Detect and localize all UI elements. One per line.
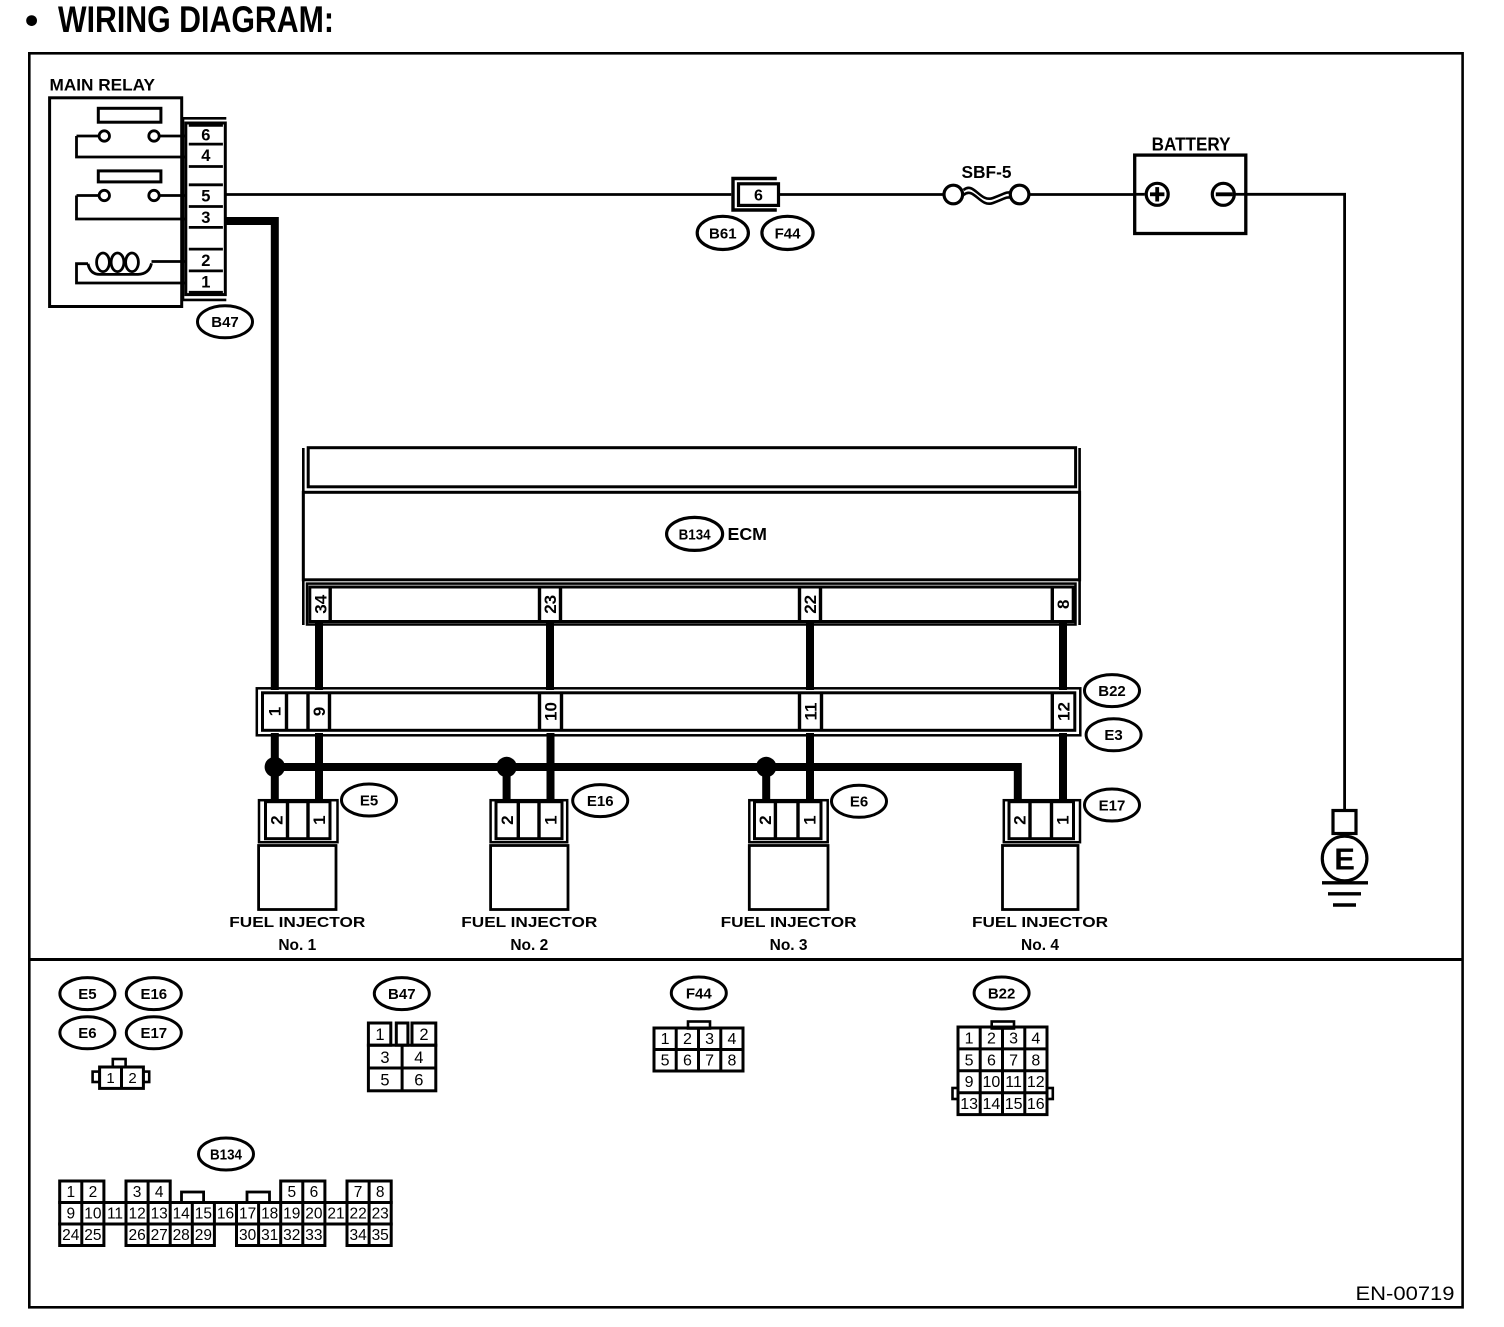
relay switch 2 (pins 5-3)	[77, 190, 187, 219]
svg-text:4: 4	[1031, 1030, 1040, 1047]
label B22	[974, 977, 1029, 1009]
svg-text:5: 5	[965, 1052, 974, 1069]
svg-text:2: 2	[683, 1031, 692, 1048]
svg-text:15: 15	[1005, 1096, 1023, 1113]
svg-text:E16: E16	[140, 986, 167, 1003]
svg-text:4: 4	[201, 147, 211, 165]
svg-text:5: 5	[201, 188, 210, 206]
label B22	[1085, 675, 1140, 707]
svg-text:8: 8	[1031, 1052, 1040, 1069]
svg-text:E: E	[1334, 842, 1355, 877]
label E16	[573, 785, 628, 817]
svg-text:10: 10	[983, 1074, 1001, 1091]
junction node injector 3	[756, 757, 776, 777]
svg-text:1: 1	[375, 1026, 384, 1044]
svg-text:2: 2	[987, 1030, 996, 1047]
svg-text:17: 17	[239, 1206, 256, 1223]
svg-text:8: 8	[376, 1184, 385, 1201]
ECM housing	[303, 448, 1079, 625]
connector B47 strip outer bracket	[183, 118, 226, 300]
svg-text:B22: B22	[1098, 683, 1126, 700]
connector B61/F44 pin 6	[733, 179, 779, 211]
svg-text:EN-00719: EN-00719	[1356, 1284, 1455, 1305]
svg-text:9: 9	[965, 1074, 974, 1091]
svg-text:20: 20	[305, 1206, 323, 1223]
wire: connector to fuse SBF-5	[779, 193, 943, 196]
svg-text:E16: E16	[587, 793, 614, 810]
svg-text:E3: E3	[1104, 727, 1122, 744]
svg-text:3: 3	[201, 209, 210, 227]
svg-text:6: 6	[683, 1053, 692, 1070]
svg-text:11: 11	[107, 1206, 123, 1223]
svg-text:B22: B22	[988, 985, 1016, 1002]
svg-text:2: 2	[268, 815, 287, 824]
wire: battery to ground E	[1246, 194, 1345, 810]
wire: E3 pin 9 to injector 1 pin 1 (thick)	[315, 733, 323, 803]
svg-text:4: 4	[155, 1184, 164, 1201]
relay box	[50, 98, 182, 307]
injector 4 connector (pins 2,1)	[1004, 800, 1080, 842]
svg-text:1: 1	[965, 1030, 974, 1047]
relay contact bar 2	[98, 171, 161, 182]
svg-text:B47: B47	[211, 314, 239, 331]
wire: ECM pin 8 down (thick)	[1059, 623, 1067, 690]
svg-text:27: 27	[151, 1227, 168, 1244]
svg-text:1: 1	[542, 815, 561, 824]
label B47	[374, 978, 429, 1010]
svg-text:7: 7	[705, 1053, 714, 1070]
label E5	[60, 978, 115, 1010]
svg-text:28: 28	[173, 1227, 190, 1244]
svg-text:14: 14	[173, 1206, 191, 1223]
svg-text:6: 6	[201, 127, 210, 145]
ground E	[1322, 811, 1368, 906]
svg-text:12: 12	[1055, 702, 1074, 721]
svg-text:FUEL INJECTOR: FUEL INJECTOR	[229, 914, 365, 931]
svg-text:2: 2	[419, 1026, 428, 1044]
svg-text:12: 12	[1027, 1074, 1045, 1091]
injector 1 connector (pins 2,1)	[259, 800, 338, 842]
battery	[1135, 135, 1246, 234]
svg-text:18: 18	[261, 1206, 278, 1223]
wire: ECM pin 23 down (thick)	[546, 623, 554, 690]
svg-text:8: 8	[727, 1053, 736, 1070]
svg-text:8: 8	[1054, 600, 1073, 609]
wire: injector supply bus (thick)	[275, 767, 1022, 803]
injector 1 body FUEL INJECTOR No. 1	[229, 846, 365, 955]
svg-text:24: 24	[62, 1227, 80, 1244]
svg-text:B134: B134	[679, 526, 712, 543]
svg-text:25: 25	[84, 1227, 101, 1244]
connector strip B22/E3 pins 1 9 10 11 12	[257, 688, 1081, 735]
svg-text:3: 3	[705, 1031, 714, 1048]
svg-text:10: 10	[542, 702, 561, 721]
svg-text:9: 9	[310, 707, 329, 716]
wire: relay pin 3 (thick) down to E3 pin 1	[225, 221, 274, 690]
svg-text:4: 4	[727, 1031, 736, 1048]
svg-text:E6: E6	[78, 1025, 96, 1042]
wire: bus to injector 1 pin 2 (thick)	[271, 767, 279, 803]
svg-text:12: 12	[128, 1206, 145, 1223]
wire: ECM pin 34 down (thick)	[315, 623, 323, 690]
svg-text:26: 26	[128, 1227, 145, 1244]
svg-text:ECM: ECM	[728, 524, 768, 544]
svg-text:2: 2	[756, 815, 775, 824]
injector 3 connector (pins 2,1)	[749, 800, 827, 842]
label E17	[126, 1017, 181, 1049]
svg-text:6: 6	[987, 1052, 996, 1069]
svg-text:FUEL INJECTOR: FUEL INJECTOR	[461, 914, 597, 931]
wire: bus to injector 3 pin 2 (thick)	[762, 767, 770, 803]
label B134	[667, 517, 723, 550]
svg-text:1: 1	[201, 274, 210, 292]
svg-text:14: 14	[983, 1096, 1001, 1113]
wire: bus to injector 2 pin 2 (thick)	[503, 767, 511, 803]
svg-text:33: 33	[305, 1227, 322, 1244]
svg-text:B61: B61	[709, 225, 737, 242]
svg-text:4: 4	[414, 1049, 423, 1067]
label B61	[697, 216, 748, 249]
svg-text:1: 1	[106, 1070, 114, 1087]
svg-text:1: 1	[310, 815, 329, 824]
svg-text:No. 4: No. 4	[1021, 937, 1059, 954]
junction node injector 1	[265, 757, 285, 777]
svg-text:FUEL INJECTOR: FUEL INJECTOR	[972, 914, 1108, 931]
svg-text:9: 9	[66, 1206, 75, 1223]
svg-text:3: 3	[133, 1184, 142, 1201]
label E3	[1086, 719, 1141, 751]
svg-text:E5: E5	[78, 986, 96, 1003]
svg-text:11: 11	[802, 703, 821, 721]
separator line	[29, 958, 1462, 961]
relay contact bar 1	[98, 108, 161, 122]
injector 2 connector (pins 2,1)	[491, 800, 568, 842]
svg-text:SBF-5: SBF-5	[962, 162, 1012, 182]
svg-text:MAIN RELAY: MAIN RELAY	[50, 76, 156, 95]
svg-text:E5: E5	[360, 792, 378, 809]
relay coil (pins 2-1)	[77, 253, 187, 283]
svg-text:6: 6	[414, 1072, 423, 1090]
svg-text:32: 32	[283, 1227, 300, 1244]
svg-text:16: 16	[1027, 1096, 1045, 1113]
svg-text:13: 13	[960, 1096, 978, 1113]
connector B22 face view	[953, 1022, 1053, 1115]
svg-text:5: 5	[380, 1072, 389, 1090]
svg-text:5: 5	[661, 1053, 670, 1070]
label E5	[342, 784, 397, 816]
svg-text:34: 34	[349, 1227, 367, 1244]
svg-text:7: 7	[354, 1184, 363, 1201]
svg-text:23: 23	[372, 1206, 389, 1223]
svg-text:34: 34	[311, 594, 330, 613]
injector connector face view (1,2)	[93, 1059, 150, 1088]
svg-text:WIRING DIAGRAM:: WIRING DIAGRAM:	[58, 0, 334, 40]
svg-text:10: 10	[84, 1206, 102, 1223]
label B134	[199, 1138, 254, 1170]
svg-text:2: 2	[201, 252, 210, 270]
label E17	[1085, 789, 1140, 821]
svg-text:5: 5	[287, 1184, 296, 1201]
relay switch 1 (pins 6-4)	[77, 131, 187, 157]
svg-text:15: 15	[195, 1206, 212, 1223]
svg-text:E17: E17	[1099, 797, 1126, 814]
svg-text:B47: B47	[388, 986, 416, 1003]
svg-text:3: 3	[380, 1049, 389, 1067]
svg-text:BATTERY: BATTERY	[1152, 135, 1231, 155]
connector B47 face view	[368, 1023, 435, 1091]
svg-text:No. 3: No. 3	[770, 937, 808, 954]
ECM connector strip pins 34 23 22 8	[307, 584, 1076, 625]
svg-text:FUEL INJECTOR: FUEL INJECTOR	[721, 914, 857, 931]
connector B134 face view	[60, 1181, 392, 1246]
label F44	[671, 977, 726, 1009]
connector B47 strip	[186, 123, 226, 295]
label E16	[126, 978, 181, 1010]
injector 4 body FUEL INJECTOR No. 4	[972, 846, 1108, 955]
svg-text:F44: F44	[686, 985, 713, 1002]
injector 2 body FUEL INJECTOR No. 2	[461, 846, 597, 955]
wire: fuse to battery	[1029, 193, 1135, 196]
svg-text:2: 2	[1011, 815, 1030, 824]
svg-text:31: 31	[261, 1227, 278, 1244]
wire: E3 pin 12 to injector 4 pin 1 (thick)	[1059, 733, 1067, 803]
svg-text:1: 1	[661, 1031, 670, 1048]
svg-text:E17: E17	[140, 1025, 167, 1042]
svg-text:23: 23	[541, 595, 560, 614]
injector 3 body FUEL INJECTOR No. 3	[721, 846, 857, 955]
svg-text:11: 11	[1005, 1074, 1022, 1091]
svg-text:21: 21	[327, 1206, 344, 1223]
title bullet	[26, 15, 37, 26]
label E6	[832, 785, 887, 817]
svg-text:22: 22	[801, 595, 820, 614]
svg-text:1: 1	[66, 1184, 75, 1201]
svg-text:3: 3	[1009, 1030, 1018, 1047]
wire: E3 pin 11 to injector 3 pin 1 (thick)	[806, 733, 814, 803]
svg-text:2: 2	[128, 1070, 136, 1087]
label E6	[60, 1017, 115, 1049]
svg-text:7: 7	[1009, 1052, 1018, 1069]
wire: relay pin 5 to connector B61/F44	[225, 193, 731, 196]
svg-text:E6: E6	[850, 794, 868, 811]
connector F44 face view	[654, 1022, 743, 1072]
label F44	[762, 216, 813, 249]
svg-text:16: 16	[217, 1206, 234, 1223]
svg-text:2: 2	[89, 1184, 98, 1201]
wire: E3 pin 10 to injector 2 pin 1 (thick)	[547, 733, 555, 803]
svg-text:B134: B134	[210, 1146, 243, 1163]
svg-text:6: 6	[754, 187, 763, 204]
svg-text:29: 29	[195, 1227, 212, 1244]
svg-text:No. 1: No. 1	[278, 937, 316, 954]
svg-text:19: 19	[283, 1206, 300, 1223]
svg-text:1: 1	[266, 707, 285, 716]
svg-text:6: 6	[310, 1184, 319, 1201]
junction node injector 2	[496, 757, 516, 777]
label B47	[198, 306, 253, 338]
svg-text:1: 1	[1054, 815, 1073, 824]
svg-text:F44: F44	[775, 225, 802, 242]
svg-text:1: 1	[801, 815, 820, 824]
svg-text:2: 2	[498, 815, 517, 824]
fuse SBF-5	[944, 162, 1029, 204]
svg-text:22: 22	[349, 1206, 366, 1223]
svg-text:13: 13	[151, 1206, 168, 1223]
svg-text:No. 2: No. 2	[510, 937, 548, 954]
wire: ECM pin 22 down (thick)	[806, 623, 814, 690]
svg-text:35: 35	[372, 1227, 389, 1244]
svg-text:30: 30	[239, 1227, 257, 1244]
wire: E3 pin 1 down to bus (thick)	[271, 733, 279, 767]
